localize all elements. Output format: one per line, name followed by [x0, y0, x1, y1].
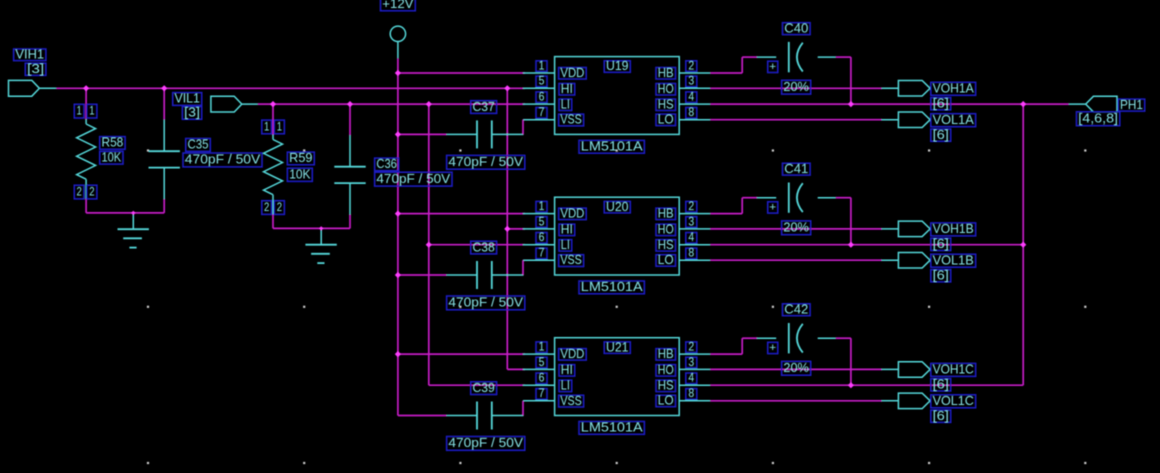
- label U19 right pin numbers 2 3 4 8: [686, 60, 697, 119]
- svg-text:U21: U21: [606, 340, 629, 354]
- junction +12V U21 pin1: [395, 351, 401, 357]
- svg-text:LM5101A: LM5101A: [581, 140, 644, 154]
- junction HS2 C41: [848, 242, 854, 248]
- svg-text:VOL1C: VOL1C: [933, 394, 974, 408]
- svg-text:LM5101A: LM5101A: [581, 280, 644, 294]
- svg-text:C41: C41: [784, 162, 808, 176]
- svg-text:[6]: [6]: [933, 268, 949, 282]
- label VIL1 [3]: [182, 106, 201, 120]
- label VOH1B: [931, 222, 976, 236]
- junction VIL1 R59: [270, 101, 276, 107]
- resistor R59: [264, 104, 283, 228]
- svg-text:1: 1: [264, 121, 269, 133]
- svg-text:HB: HB: [658, 347, 674, 361]
- label R59 value 10K: [287, 168, 312, 182]
- svg-text:4: 4: [688, 232, 694, 244]
- label C39 value 470pF / 50V: [447, 436, 525, 450]
- svg-text:8: 8: [688, 248, 694, 260]
- svg-text:U19: U19: [606, 59, 629, 73]
- wire U19 pin 4 HS to PH1: [710, 103, 1069, 105]
- svg-text:+: +: [769, 61, 776, 73]
- port VOH1C: [882, 362, 931, 378]
- wire C41 to HS net: [836, 198, 851, 245]
- label C39: [471, 381, 497, 395]
- junction VIH1 rail: [504, 85, 510, 91]
- svg-text:VIL1: VIL1: [175, 92, 200, 106]
- label R59 pin 1: [262, 120, 285, 134]
- label PH1: [1118, 98, 1145, 112]
- svg-text:C38: C38: [473, 240, 495, 254]
- label U21 left pin names VDD HI LI VSS: [559, 347, 587, 408]
- port VOH1B: [882, 221, 931, 237]
- svg-text:[4,6,8]: [4,6,8]: [1078, 112, 1118, 126]
- svg-text:VOH1C: VOH1C: [933, 363, 974, 377]
- label C37: [471, 100, 497, 114]
- label R59: [287, 151, 314, 165]
- junction HS1 PH1 rail: [1020, 101, 1026, 107]
- svg-text:1: 1: [539, 201, 545, 213]
- port VIL1: [211, 96, 258, 112]
- svg-text:VOL1A: VOL1A: [933, 113, 975, 127]
- op-amp U21 LM5101A gate driver: [555, 338, 680, 416]
- wire R59/C36 to ground: [273, 227, 350, 229]
- svg-text:VDD: VDD: [560, 347, 584, 361]
- svg-text:+: +: [769, 202, 776, 214]
- label U21 value LM5101A: [579, 421, 644, 435]
- svg-text:2: 2: [277, 202, 282, 214]
- op-amp U20 LM5101A gate driver: [555, 197, 680, 275]
- svg-text:2: 2: [264, 202, 269, 214]
- svg-text:HI: HI: [561, 363, 573, 377]
- svg-text:LI: LI: [561, 379, 570, 393]
- ground GND1: [118, 213, 149, 248]
- wire +12V to C37: [398, 133, 447, 135]
- svg-text:1: 1: [77, 106, 82, 118]
- label C40 tolerance 20%: [782, 80, 811, 94]
- svg-text:VIH1: VIH1: [15, 48, 44, 62]
- capacitor C37: [447, 120, 524, 148]
- svg-text:3: 3: [688, 216, 694, 228]
- capacitor C40 polarized: [757, 42, 836, 72]
- label R58: [100, 136, 125, 150]
- wire +12V to C39: [398, 415, 447, 417]
- resistor R58: [77, 88, 96, 213]
- op-amp U19 LM5101A gate driver: [555, 57, 680, 135]
- svg-text:470pF / 50V: 470pF / 50V: [448, 296, 523, 310]
- label C41 tolerance 20%: [782, 220, 811, 234]
- label C41 plus polarity mark: [768, 202, 778, 214]
- label C37 value 470pF / 50V: [447, 155, 525, 169]
- svg-text:7: 7: [539, 107, 545, 119]
- label R59 pin 2: [262, 201, 285, 215]
- junction +12V U19 pin1: [395, 70, 401, 76]
- capacitor C35: [149, 88, 180, 213]
- svg-text:VSS: VSS: [560, 394, 581, 408]
- junction VIL1 rail: [426, 101, 432, 107]
- wire U pin 2 HB to C42: [710, 338, 757, 354]
- wire +12V to U19 pin 1: [398, 72, 525, 74]
- junction HS1 C40: [848, 101, 854, 107]
- port VOL1C: [882, 393, 931, 409]
- svg-text:10K: 10K: [102, 150, 122, 164]
- svg-text:5: 5: [539, 357, 545, 369]
- wire C40 to HS net: [836, 57, 851, 104]
- svg-text:PH1: PH1: [1120, 98, 1143, 112]
- junction +12V C38: [395, 272, 401, 278]
- svg-text:4: 4: [688, 373, 694, 385]
- svg-text:U20: U20: [606, 200, 629, 214]
- svg-text:470pF / 50V: 470pF / 50V: [448, 155, 523, 169]
- svg-text:R58: R58: [102, 136, 124, 150]
- wire U pin 3 HO to VOH1C: [710, 368, 882, 370]
- junction VIL1 U20 pin6: [426, 242, 432, 248]
- wire net VIH1 vertical rail: [507, 88, 525, 369]
- svg-text:5: 5: [539, 76, 545, 88]
- wire U pin 3 HO to VOH1A: [710, 87, 882, 89]
- label U20 right pin numbers 2 3 4 8: [686, 201, 697, 260]
- label U19 right pin names HB HO HS LO: [656, 66, 676, 127]
- svg-text:7: 7: [539, 248, 545, 260]
- label U19 reference: [604, 59, 630, 73]
- svg-text:20%: 20%: [783, 80, 809, 94]
- wire +12V vertical rail: [397, 58, 399, 415]
- wire U pin 3 HO to VOH1B: [710, 228, 882, 230]
- label VOL1A: [931, 113, 976, 127]
- svg-text:2: 2: [688, 60, 694, 72]
- wire VIL1 to U20 pin 6: [429, 244, 525, 246]
- label R58 pin 2: [74, 185, 97, 199]
- svg-text:[6]: [6]: [933, 409, 949, 423]
- junction VIH1 R58: [83, 85, 89, 91]
- svg-text:470pF / 50V: 470pF / 50V: [376, 172, 451, 186]
- power symbol +12V: [390, 26, 405, 58]
- label U20 right pin names HB HO HS LO: [656, 207, 676, 268]
- svg-text:[3]: [3]: [184, 106, 200, 120]
- svg-text:+12V: +12V: [382, 0, 414, 11]
- svg-text:8: 8: [688, 107, 694, 119]
- label VOL1C [6]: [931, 409, 951, 423]
- svg-text:HO: HO: [658, 82, 674, 96]
- label C35 value 470pF / 50V: [183, 153, 262, 167]
- svg-text:VDD: VDD: [560, 207, 584, 221]
- svg-text:6: 6: [539, 232, 545, 244]
- label VOL1C: [931, 394, 976, 408]
- junction HS3 C42: [848, 382, 854, 388]
- label C42: [783, 302, 811, 316]
- svg-text:C35: C35: [188, 138, 209, 152]
- wire U21 pin 4 HS: [710, 384, 1023, 386]
- label VOL1B: [931, 253, 976, 267]
- capacitor C41 polarized: [757, 183, 836, 213]
- port VOL1B: [882, 253, 931, 269]
- svg-text:[6]: [6]: [933, 128, 949, 142]
- svg-text:[6]: [6]: [933, 97, 949, 111]
- U20 pin leads: [523, 214, 710, 261]
- svg-text:VOH1B: VOH1B: [933, 222, 974, 236]
- svg-text:8: 8: [688, 388, 694, 400]
- capacitor C36: [334, 104, 365, 228]
- junction VIL1 C36: [347, 101, 353, 107]
- label R58 value 10K: [100, 150, 123, 164]
- port PH1: [1069, 96, 1117, 112]
- svg-text:C39: C39: [473, 381, 495, 395]
- label VIH1 [3]: [25, 62, 46, 76]
- svg-text:HS: HS: [658, 379, 674, 393]
- svg-text:VSS: VSS: [560, 113, 581, 127]
- label VOH1B [6]: [931, 237, 951, 251]
- label U19 left pin names VDD HI LI VSS: [559, 66, 587, 127]
- label VIL1: [173, 92, 202, 106]
- svg-text:HI: HI: [561, 223, 573, 237]
- svg-text:VSS: VSS: [560, 253, 581, 267]
- wire net VIL1 horizontal: [258, 103, 525, 105]
- svg-text:LO: LO: [658, 253, 674, 267]
- junction +12V C37: [395, 131, 401, 137]
- label C38: [471, 240, 497, 254]
- label U21 right pin names HB HO HS LO: [656, 347, 676, 408]
- svg-text:C40: C40: [784, 21, 808, 35]
- label U20 reference: [604, 200, 630, 214]
- svg-text:2: 2: [89, 186, 94, 198]
- svg-text:6: 6: [539, 92, 545, 104]
- svg-text:C37: C37: [473, 100, 495, 114]
- svg-text:VOL1B: VOL1B: [933, 253, 974, 267]
- label C42 tolerance 20%: [782, 361, 811, 375]
- svg-text:1: 1: [539, 342, 545, 354]
- svg-text:7: 7: [539, 388, 545, 400]
- svg-text:HI: HI: [561, 82, 573, 96]
- junction R59-C36-GND2: [319, 226, 323, 230]
- label C38 value 470pF / 50V: [447, 296, 525, 310]
- svg-text:LI: LI: [561, 238, 570, 252]
- wire C42 to HS net: [836, 338, 851, 385]
- wire U pin 2 HB to C41: [710, 198, 757, 214]
- U21 pin leads: [523, 354, 710, 401]
- label C40: [783, 21, 811, 35]
- svg-text:HS: HS: [658, 98, 674, 112]
- wire +12V to U20 pin 1: [398, 213, 525, 215]
- svg-text:[6]: [6]: [933, 237, 949, 251]
- svg-text:470pF / 50V: 470pF / 50V: [448, 436, 523, 450]
- label R58 pin 1: [74, 104, 97, 118]
- svg-text:LM5101A: LM5101A: [581, 421, 644, 435]
- junction VIH1 U20 pin5: [504, 226, 510, 232]
- label C40 plus polarity mark: [768, 61, 778, 73]
- label C36 value 470pF / 50V: [375, 172, 452, 186]
- label U21 left pin numbers 1 5 6 7: [536, 342, 547, 401]
- label U19 value LM5101A: [579, 140, 644, 154]
- svg-text:1: 1: [277, 121, 282, 133]
- svg-text:LO: LO: [658, 113, 674, 127]
- label U20 left pin names VDD HI LI VSS: [559, 207, 587, 268]
- wire R58/C35 to ground: [86, 212, 164, 214]
- label U21 right pin numbers 2 3 4 8: [686, 342, 697, 401]
- label VOL1A [6]: [931, 128, 951, 142]
- capacitor C42 polarized: [757, 323, 836, 353]
- wire U pin 8 LO to VOL1B: [710, 259, 882, 261]
- wire C38 to VSS pin 7: [522, 260, 524, 275]
- capacitor C38: [447, 261, 524, 289]
- svg-text:LO: LO: [658, 394, 674, 408]
- svg-text:20%: 20%: [783, 220, 809, 234]
- wire U20 pin 4 HS: [710, 244, 1023, 246]
- svg-text:20%: 20%: [783, 361, 809, 375]
- svg-text:3: 3: [688, 76, 694, 88]
- svg-text:2: 2: [688, 342, 694, 354]
- wire U pin 8 LO to VOL1A: [710, 119, 882, 121]
- svg-text:HO: HO: [658, 363, 674, 377]
- wire U pin 2 HB to C40: [710, 57, 757, 73]
- wire HS vertical rail to PH1 net: [1022, 104, 1024, 385]
- label U21 reference: [604, 340, 630, 354]
- label U19 left pin numbers 1 5 6 7: [536, 60, 547, 119]
- svg-text:[6]: [6]: [933, 378, 949, 392]
- svg-text:HO: HO: [658, 223, 674, 237]
- label VOH1A [6]: [931, 97, 951, 111]
- svg-text:R59: R59: [289, 151, 312, 165]
- svg-text:2: 2: [77, 186, 82, 198]
- port VIH1: [9, 80, 57, 96]
- svg-text:[3]: [3]: [27, 62, 44, 76]
- svg-text:C42: C42: [784, 302, 808, 316]
- wire +12V to U21 pin 1: [398, 353, 525, 355]
- label C41: [783, 162, 811, 176]
- svg-text:6: 6: [539, 373, 545, 385]
- svg-text:HB: HB: [658, 207, 674, 221]
- svg-text:1: 1: [539, 60, 545, 72]
- svg-text:VOH1A: VOH1A: [933, 82, 975, 96]
- label VOH1C [6]: [931, 378, 951, 392]
- ground GND2: [305, 228, 336, 263]
- svg-text:VDD: VDD: [560, 66, 584, 80]
- label U20 value LM5101A: [579, 280, 644, 294]
- wire net VIH1 horizontal: [56, 87, 525, 89]
- junction HS2 PH1 rail: [1020, 242, 1026, 248]
- svg-text:1: 1: [89, 106, 94, 118]
- wire C37 to VSS pin 7: [522, 120, 524, 135]
- label PH1 [4,6,8]: [1077, 112, 1120, 126]
- svg-text:10K: 10K: [289, 168, 311, 182]
- wire net VIL1 vertical rail: [429, 104, 525, 385]
- label C35: [186, 138, 211, 152]
- port VOH1A: [882, 81, 931, 97]
- label U20 left pin numbers 1 5 6 7: [536, 201, 547, 260]
- wire U pin 8 LO to VOL1C: [710, 400, 882, 402]
- svg-text:5: 5: [539, 216, 545, 228]
- junction R58-C35-GND1: [131, 211, 135, 215]
- svg-text:LI: LI: [561, 98, 570, 112]
- junction +12V U20 pin1: [395, 211, 401, 217]
- svg-text:4: 4: [688, 92, 694, 104]
- label VOH1A: [931, 82, 976, 96]
- wire C39 to VSS pin 7: [522, 401, 524, 416]
- svg-text:HS: HS: [658, 238, 674, 252]
- label VOL1B [6]: [931, 268, 951, 282]
- capacitor C39: [447, 402, 524, 430]
- wire VIH1 to U20 pin 5: [507, 228, 525, 230]
- svg-text:C36: C36: [376, 157, 397, 171]
- svg-text:3: 3: [688, 357, 694, 369]
- wire +12V to C38: [398, 274, 447, 276]
- svg-text:2: 2: [688, 201, 694, 213]
- label C36: [375, 157, 399, 171]
- svg-text:HB: HB: [658, 66, 674, 80]
- label C42 plus polarity mark: [768, 342, 778, 354]
- junction VIH1 C35: [161, 85, 167, 91]
- label +12V: [381, 0, 416, 11]
- label VIH1: [14, 48, 46, 62]
- U19 pin leads: [523, 73, 710, 120]
- label VOH1C: [931, 363, 976, 377]
- svg-text:470pF / 50V: 470pF / 50V: [185, 153, 261, 167]
- port VOL1A: [882, 112, 931, 128]
- svg-text:+: +: [769, 342, 776, 354]
